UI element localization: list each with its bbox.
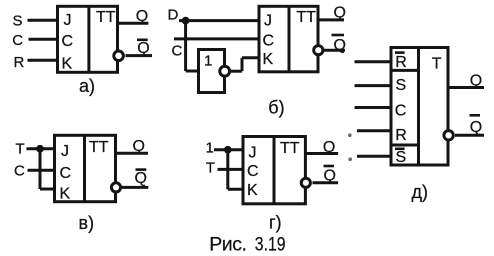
svg-text:T: T — [206, 159, 215, 176]
flip-flop U4 box — [243, 137, 305, 204]
flip-flop U3 divider — [83, 135, 86, 201]
wire 1 branch to K — [228, 188, 244, 191]
svg-text:J: J — [264, 13, 272, 30]
svg-text:Q: Q — [135, 170, 147, 187]
svg-text:R: R — [395, 54, 407, 71]
wire T to C — [218, 168, 245, 171]
svg-text:K: K — [247, 182, 258, 199]
wire inverter out to K — [242, 56, 260, 59]
svg-text:D: D — [168, 6, 179, 23]
U5 section line bottom — [391, 144, 419, 147]
wire input S-bar — [357, 155, 391, 158]
svg-text:Q: Q — [334, 37, 346, 54]
svg-text:1: 1 — [204, 53, 212, 70]
svg-text:Q: Q — [324, 167, 336, 184]
svg-text:Q: Q — [137, 40, 149, 57]
wire output Q of U1 — [118, 22, 149, 25]
svg-text:TT: TT — [89, 139, 109, 156]
svg-text:Q: Q — [136, 8, 148, 25]
wire inverter out horizontal — [231, 70, 242, 73]
svg-text:Q: Q — [470, 119, 482, 136]
wire input R-bar — [355, 60, 392, 63]
svg-text:T: T — [16, 141, 25, 158]
inverter DD1 output bubble — [220, 66, 230, 76]
svg-text:C: C — [263, 32, 275, 49]
overbar of Q-bar U2 — [332, 34, 345, 37]
svg-text:C: C — [60, 165, 72, 182]
speckle dot left of S-bar wire — [348, 157, 352, 161]
wire output Q-bar of U5 — [455, 134, 484, 137]
wire 1 to J — [214, 148, 244, 151]
svg-text:а): а) — [79, 76, 95, 96]
flip-flop U2 divider — [288, 6, 291, 72]
wire output Q of U4 — [305, 152, 338, 155]
inversion bubble on U5 Q-bar — [444, 131, 453, 140]
svg-text:C: C — [62, 33, 74, 50]
overbar of Q-bar U3 — [136, 168, 147, 171]
svg-text:TT: TT — [280, 140, 300, 157]
speckle dot left of R wire — [348, 133, 352, 137]
wire output Q of U5 — [448, 86, 484, 89]
wire T branch to K — [40, 188, 56, 191]
svg-text:S: S — [396, 77, 407, 94]
svg-text:T: T — [432, 56, 442, 73]
wire T to J — [27, 147, 57, 150]
wire C to C — [28, 169, 57, 172]
flip-flop U1 divider — [87, 6, 90, 72]
flip-flop U4 divider — [273, 137, 276, 204]
inversion bubble on U3 Q-bar — [111, 183, 120, 192]
svg-text:Q: Q — [323, 139, 335, 156]
junction dot on T wire — [36, 145, 44, 153]
flip-flop U3 box — [55, 135, 116, 201]
wire D to J — [179, 19, 260, 22]
svg-text:J: J — [249, 145, 257, 162]
wire D branch to inverter — [186, 70, 199, 73]
overbar of Q-bar U4 — [324, 165, 335, 168]
U5 section line top — [391, 69, 419, 72]
wire input S — [355, 84, 392, 87]
svg-text:J: J — [64, 12, 72, 29]
svg-text:Рис.: Рис. — [209, 234, 246, 256]
flip-flop U1 box — [58, 6, 118, 72]
wire C to C — [174, 37, 260, 40]
wire 1 branch vertical — [226, 150, 229, 189]
svg-text:K: K — [60, 186, 71, 203]
wire output Q-bar of U3 — [122, 186, 148, 189]
wire output Q of U2 — [318, 18, 344, 21]
svg-text:3.19: 3.19 — [255, 233, 286, 255]
svg-text:Q: Q — [133, 138, 145, 155]
wire D branch vertical — [184, 19, 187, 71]
overbar of Q-bar U1 — [137, 38, 148, 41]
inversion bubble on U4 Q-bar — [301, 178, 310, 187]
svg-text:Q: Q — [470, 73, 482, 90]
svg-text:1: 1 — [206, 140, 214, 157]
svg-text:TT: TT — [296, 9, 316, 26]
wire R to K — [28, 59, 60, 62]
inverter DD1 box — [199, 50, 225, 93]
svg-text:б): б) — [268, 98, 284, 118]
inversion bubble on U1 Q-bar — [114, 51, 124, 61]
svg-text:C: C — [12, 32, 23, 49]
wire S to J — [28, 19, 60, 22]
junction dot on D wire — [182, 17, 190, 25]
wire output Q-bar of U1 — [126, 54, 153, 57]
wire C to C — [29, 38, 60, 41]
flip-flop U5 divider — [417, 48, 420, 166]
svg-text:K: K — [62, 55, 73, 72]
wire output Q-bar of U2 — [324, 49, 345, 52]
wire output Q of U3 — [116, 152, 149, 155]
junction dot on 1 wire — [224, 146, 232, 154]
svg-text:Q: Q — [334, 5, 346, 22]
svg-text:TT: TT — [96, 9, 116, 26]
svg-text:в): в) — [79, 213, 95, 233]
overbar of Q-bar U5 — [470, 114, 481, 117]
svg-text:д): д) — [412, 182, 429, 202]
flip-flop U2 box — [259, 6, 318, 72]
wire inverter out vertical — [241, 58, 244, 71]
svg-text:г): г) — [269, 213, 282, 233]
svg-text:C: C — [172, 43, 183, 60]
overbar of pin S-bar — [395, 148, 405, 151]
wire input C — [355, 106, 392, 109]
svg-text:S: S — [396, 149, 407, 166]
overbar of pin R-bar — [395, 51, 405, 54]
svg-text:R: R — [395, 127, 407, 144]
inversion bubble on U2 Q-bar — [314, 46, 323, 55]
svg-text:C: C — [395, 102, 407, 119]
wire output Q-bar of U4 — [313, 181, 339, 184]
wire T branch vertical — [39, 149, 42, 189]
svg-text:J: J — [61, 143, 69, 160]
svg-text:R: R — [14, 54, 25, 71]
wire input R — [357, 129, 391, 132]
svg-text:S: S — [13, 12, 23, 29]
svg-text:C: C — [247, 163, 259, 180]
svg-text:C: C — [14, 163, 25, 180]
flip-flop U5 box — [391, 48, 448, 166]
svg-text:K: K — [263, 51, 274, 68]
